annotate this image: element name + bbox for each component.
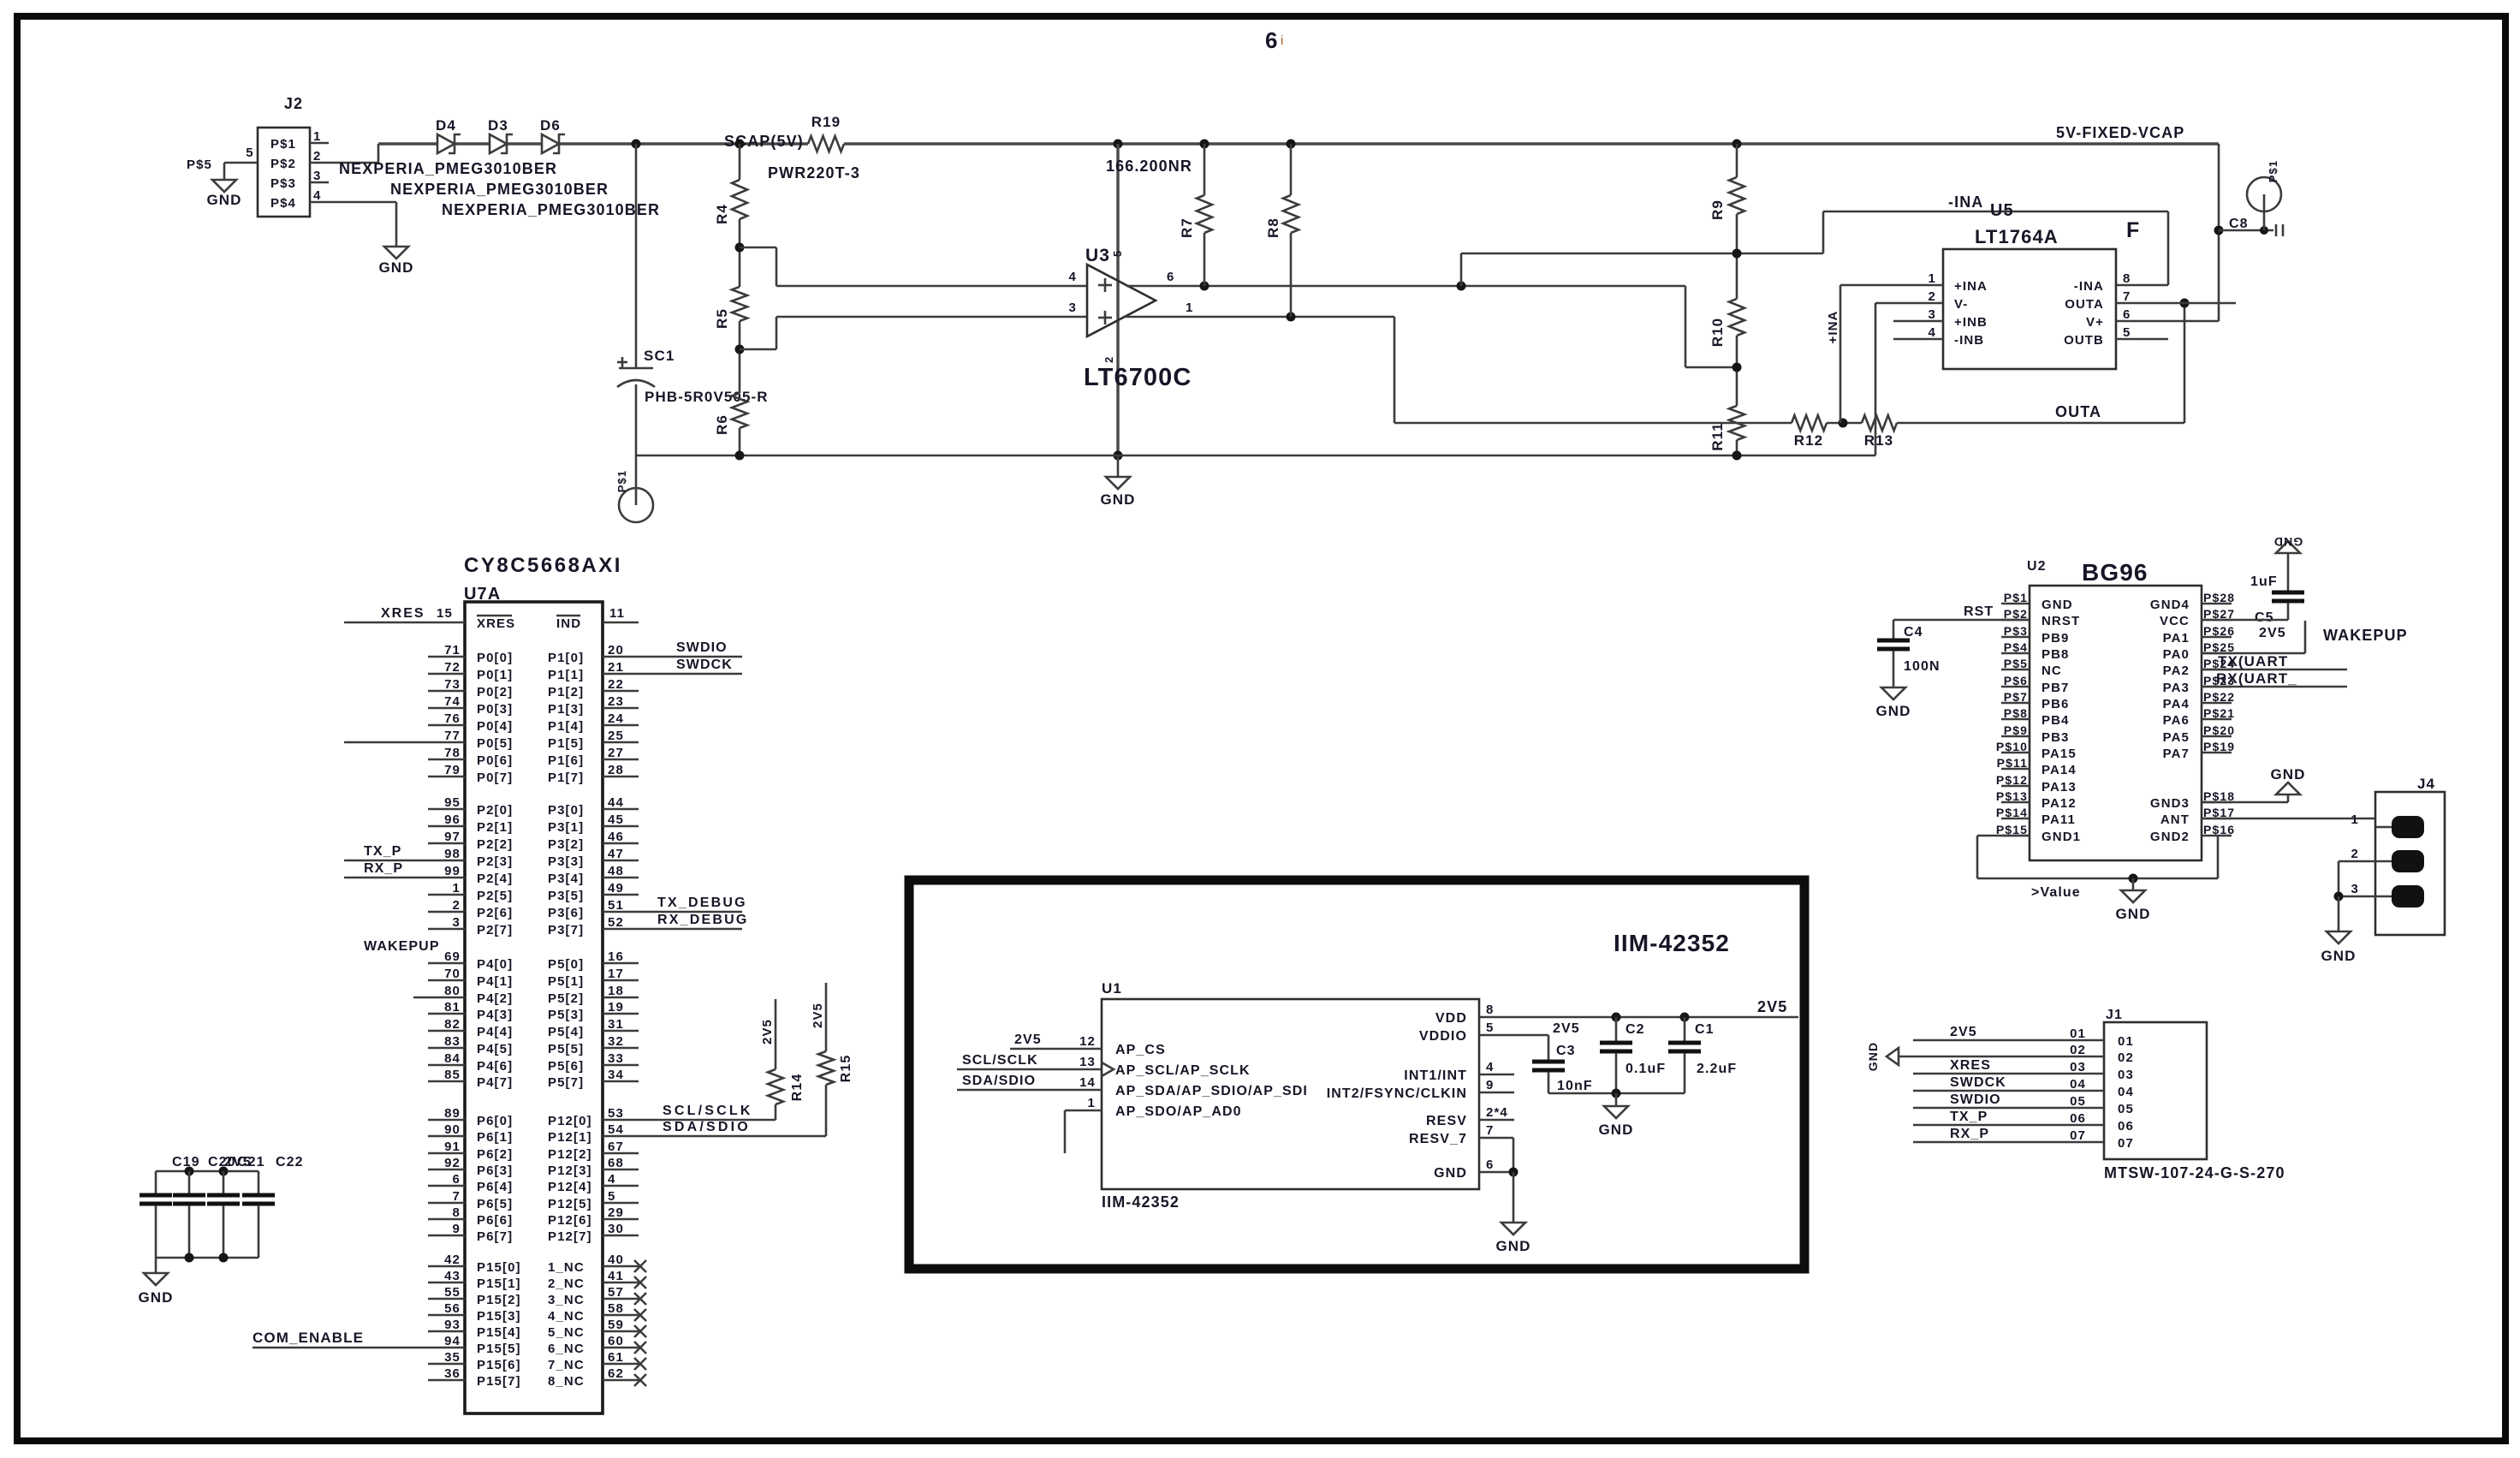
svg-text:8: 8	[1486, 1003, 1494, 1017]
svg-text:84: 84	[444, 1051, 461, 1066]
node SCAP(5V)	[724, 133, 804, 150]
diode D3	[488, 117, 513, 153]
svg-text:41: 41	[608, 1269, 624, 1283]
svg-text:8: 8	[453, 1205, 461, 1220]
svg-text:P0[0]: P0[0]	[477, 651, 513, 665]
svg-text:P5[2]: P5[2]	[548, 991, 584, 1006]
junction dots top rail	[632, 140, 1742, 149]
svg-text:05: 05	[2118, 1102, 2134, 1116]
svg-text:IIM-42352: IIM-42352	[1102, 1193, 1180, 1211]
svg-text:17: 17	[608, 967, 624, 981]
svg-text:J1: J1	[2106, 1008, 2123, 1022]
wire PA0 WAKEPUP	[2202, 621, 2305, 653]
resistor R12	[1792, 415, 1827, 449]
svg-text:2: 2	[1929, 289, 1936, 304]
svg-text:P$7: P$7	[2004, 690, 2028, 704]
ground (C4)	[1875, 687, 1911, 719]
svg-text:GND: GND	[1495, 1238, 1530, 1254]
svg-text:P3[4]: P3[4]	[548, 872, 584, 886]
svg-text:4: 4	[1486, 1060, 1494, 1074]
ground (U1)	[1495, 1172, 1530, 1254]
svg-text:R11: R11	[1709, 422, 1726, 451]
wire R4-R5	[739, 219, 741, 287]
svg-text:P3[3]: P3[3]	[548, 854, 584, 869]
svg-text:VCC: VCC	[2160, 614, 2190, 628]
wire VDDIO to C3	[1479, 1021, 1580, 1060]
svg-text:31: 31	[608, 1017, 624, 1032]
wire R12-R13	[1827, 419, 1862, 428]
accelerometer U1 IIM-42352	[1102, 980, 1479, 1211]
svg-text:D3: D3	[488, 117, 508, 134]
svg-text:P1[5]: P1[5]	[548, 736, 584, 751]
svg-text:23: 23	[608, 694, 624, 709]
label CY8C5668AXI	[464, 554, 622, 577]
svg-text:P$20: P$20	[2203, 723, 2235, 737]
svg-text:36: 36	[444, 1366, 461, 1381]
node WAKEPUP (U7A)	[364, 939, 440, 954]
svg-text:9: 9	[453, 1222, 461, 1236]
label 166.200NR	[1106, 158, 1192, 175]
svg-text:RX(UART_: RX(UART_	[2216, 670, 2297, 687]
svg-text:06: 06	[2118, 1119, 2134, 1134]
svg-text:PWR220T-3: PWR220T-3	[768, 164, 860, 182]
svg-text:GND: GND	[138, 1289, 173, 1306]
svg-text:0.1uF: 0.1uF	[1626, 1062, 1666, 1076]
svg-text:SDA/SDIO: SDA/SDIO	[663, 1120, 751, 1134]
svg-text:60: 60	[608, 1334, 624, 1348]
svg-text:P12[5]: P12[5]	[548, 1197, 592, 1211]
svg-text:9: 9	[1486, 1078, 1494, 1092]
svg-text:4: 4	[1069, 270, 1077, 284]
ground (C1-C3)	[1598, 1093, 1633, 1138]
U7A port P15/NC pins	[253, 1253, 646, 1389]
wire P$1 stem	[635, 455, 638, 505]
svg-text:R19: R19	[811, 114, 841, 130]
svg-text:02: 02	[2118, 1050, 2134, 1065]
svg-text:P0[6]: P0[6]	[477, 753, 513, 768]
svg-text:21: 21	[608, 660, 624, 675]
svg-text:78: 78	[444, 746, 461, 760]
svg-text:P0[7]: P0[7]	[477, 771, 513, 785]
ground (J2 pin4)	[378, 247, 413, 276]
svg-text:R8: R8	[1265, 217, 1281, 238]
svg-text:8: 8	[2123, 271, 2131, 286]
svg-text:61: 61	[608, 1350, 624, 1365]
svg-text:25: 25	[608, 729, 624, 743]
svg-text:AP_CS: AP_CS	[1115, 1043, 1166, 1057]
svg-text:7: 7	[453, 1189, 461, 1204]
svg-text:P6[7]: P6[7]	[477, 1229, 513, 1244]
svg-text:PB9: PB9	[2042, 631, 2069, 646]
svg-text:4_NC: 4_NC	[548, 1309, 585, 1324]
wire cap bank bottom	[156, 1253, 259, 1263]
svg-text:INT1/INT: INT1/INT	[1404, 1068, 1467, 1083]
svg-text:28: 28	[608, 763, 624, 777]
svg-text:62: 62	[608, 1366, 624, 1381]
svg-text:07: 07	[2118, 1136, 2134, 1151]
wire U5 pin7 OUTA	[2116, 302, 2236, 305]
svg-text:55: 55	[444, 1285, 461, 1300]
ground flag (J1 pin2)	[1866, 1042, 1899, 1071]
wire C8 node	[2219, 226, 2273, 235]
wire SDA/SDIO	[639, 1120, 826, 1136]
svg-text:30: 30	[608, 1222, 624, 1236]
svg-text:PA13: PA13	[2042, 780, 2077, 794]
op-amp U3	[1085, 246, 1156, 363]
svg-text:PHB-5R0V505-R: PHB-5R0V505-R	[645, 389, 769, 405]
svg-text:6: 6	[1167, 270, 1174, 284]
wire U3 pin1 output	[1123, 312, 1394, 322]
svg-text:P$2: P$2	[270, 157, 296, 171]
svg-text:12: 12	[1079, 1034, 1096, 1049]
svg-text:5: 5	[1486, 1021, 1494, 1035]
svg-text:P4[3]: P4[3]	[477, 1008, 513, 1022]
svg-text:PB8: PB8	[2042, 647, 2069, 662]
svg-text:GND: GND	[1875, 703, 1911, 719]
svg-text:P4[6]: P4[6]	[477, 1059, 513, 1074]
svg-text:P15[4]: P15[4]	[477, 1325, 521, 1340]
svg-text:SWDCK: SWDCK	[676, 658, 733, 672]
svg-text:46: 46	[608, 830, 624, 844]
wire J2 pin2 to diodes	[310, 144, 378, 163]
svg-text:P6[6]: P6[6]	[477, 1213, 513, 1228]
capacitor C4	[1877, 620, 1941, 687]
node 5V-FIXED-VCAP	[2056, 124, 2184, 141]
capacitor C3	[1532, 1044, 1593, 1093]
wire V- vertical	[1875, 303, 1877, 455]
svg-text:P2[2]: P2[2]	[477, 837, 513, 852]
svg-text:166.200NR: 166.200NR	[1106, 158, 1192, 175]
svg-text:+INA: +INA	[1826, 311, 1840, 344]
svg-text:U1: U1	[1102, 980, 1122, 997]
wire SDA/SDIO to U1 pin14	[957, 1074, 1102, 1090]
svg-text:GND: GND	[1434, 1166, 1467, 1181]
svg-text:P6[0]: P6[0]	[477, 1114, 513, 1128]
svg-text:NEXPERIA_PMEG3010BER: NEXPERIA_PMEG3010BER	[339, 160, 557, 177]
svg-text:P5[7]: P5[7]	[548, 1075, 584, 1090]
svg-text:GND2: GND2	[2150, 830, 2190, 844]
wire U3 pin3 input	[776, 316, 1087, 318]
svg-text:U2: U2	[2027, 559, 2047, 574]
svg-text:-INB: -INB	[1954, 333, 1984, 348]
svg-text:OUTA: OUTA	[2055, 403, 2101, 420]
svg-text:4: 4	[1929, 325, 1936, 340]
svg-text:95: 95	[444, 795, 461, 810]
svg-text:P0[1]: P0[1]	[477, 668, 513, 682]
wire TX_DEBUG	[639, 896, 747, 912]
svg-text:13: 13	[1079, 1055, 1096, 1069]
svg-text:-INA: -INA	[1948, 193, 1983, 211]
svg-text:R13: R13	[1864, 432, 1894, 449]
svg-text:P0[2]: P0[2]	[477, 685, 513, 699]
svg-text:SWDCK: SWDCK	[1950, 1075, 2006, 1090]
svg-text:P1[7]: P1[7]	[548, 771, 584, 785]
svg-text:RX_P: RX_P	[1950, 1127, 1989, 1141]
svg-text:P12[4]: P12[4]	[548, 1180, 592, 1194]
svg-text:P$12: P$12	[1996, 773, 2028, 787]
svg-text:35: 35	[444, 1350, 461, 1365]
IIM-42352 boundary box	[909, 880, 1804, 1269]
svg-text:IND: IND	[556, 616, 581, 631]
svg-text:80: 80	[444, 984, 461, 998]
wire R4 top	[739, 144, 741, 180]
wire TX(UART	[2202, 653, 2347, 669]
svg-text:P1[3]: P1[3]	[548, 702, 584, 717]
svg-text:PA12: PA12	[2042, 796, 2077, 811]
svg-text:P12[3]: P12[3]	[548, 1163, 592, 1178]
svg-text:34: 34	[608, 1068, 624, 1082]
node RX_P	[364, 861, 403, 876]
wire U1 pin4 stub	[1479, 1060, 1514, 1074]
svg-text:PB7: PB7	[2042, 681, 2069, 695]
svg-text:1: 1	[2351, 812, 2359, 827]
svg-text:1: 1	[1929, 271, 1936, 286]
svg-text:P1[2]: P1[2]	[548, 685, 584, 699]
svg-text:72: 72	[444, 660, 461, 675]
wire U1 pin1 stub	[1065, 1096, 1102, 1153]
svg-text:16: 16	[608, 949, 624, 964]
node TX_P	[364, 844, 401, 859]
wire U5 pin4 stub	[1893, 338, 1943, 341]
label IIM-42352 title	[1614, 930, 1730, 956]
svg-text:45: 45	[608, 812, 624, 827]
svg-text:7_NC: 7_NC	[548, 1358, 585, 1372]
capacitor C20	[207, 1171, 240, 1204]
label U2	[2027, 559, 2047, 574]
capacitor C2	[1600, 1017, 1666, 1093]
svg-text:P0[5]: P0[5]	[477, 736, 513, 751]
wire R10 bottom	[1732, 336, 1742, 406]
svg-text:P15[5]: P15[5]	[477, 1342, 521, 1356]
svg-text:P15[7]: P15[7]	[477, 1374, 521, 1389]
capacitor SC1	[617, 348, 769, 405]
svg-text:92: 92	[444, 1156, 461, 1170]
svg-text:76: 76	[444, 711, 461, 726]
svg-text:96: 96	[444, 812, 461, 827]
svg-text:3_NC: 3_NC	[548, 1293, 585, 1307]
svg-text:07: 07	[2070, 1128, 2086, 1143]
wire U3 pin6 output	[1126, 282, 1685, 291]
svg-text:R7: R7	[1179, 217, 1195, 238]
sheet number 6	[1265, 27, 1283, 53]
U7A label IND	[556, 616, 581, 631]
svg-text:PA11: PA11	[2042, 812, 2076, 827]
svg-text:GND: GND	[2270, 766, 2305, 783]
svg-text:32: 32	[608, 1034, 624, 1049]
svg-text:CY8C5668AXI: CY8C5668AXI	[464, 554, 622, 577]
svg-text:22: 22	[608, 677, 624, 692]
svg-text:53: 53	[608, 1106, 624, 1121]
svg-text:P2[6]: P2[6]	[477, 906, 513, 920]
svg-text:52: 52	[608, 915, 624, 930]
svg-text:GND: GND	[2273, 535, 2303, 549]
svg-text:10nF: 10nF	[1557, 1079, 1593, 1093]
capacitor C21	[242, 1171, 275, 1204]
svg-text:1uF: 1uF	[2250, 574, 2278, 589]
wire U1 pin6 GND	[1479, 1157, 1519, 1177]
svg-text:94: 94	[444, 1334, 461, 1348]
svg-text:V+: V+	[2086, 315, 2104, 330]
svg-text:01: 01	[2070, 1027, 2086, 1041]
node +INA	[1826, 311, 1840, 344]
svg-text:P6[4]: P6[4]	[477, 1180, 513, 1194]
resistor R9	[1709, 144, 1965, 220]
svg-text:5_NC: 5_NC	[548, 1325, 585, 1340]
svg-text:70: 70	[444, 967, 461, 981]
svg-text:1: 1	[453, 881, 461, 896]
svg-text:C5: C5	[2255, 610, 2274, 625]
svg-text:P$3: P$3	[2004, 624, 2028, 638]
svg-text:>Value: >Value	[2031, 885, 2081, 900]
svg-text:PA5: PA5	[2163, 730, 2190, 745]
resistor R8	[1265, 144, 1299, 317]
wire GND3	[2202, 794, 2288, 802]
svg-text:73: 73	[444, 677, 461, 692]
wire SCL/SCLK	[639, 1104, 776, 1120]
resistor R10	[1709, 299, 1744, 347]
ground (J4)	[2321, 896, 2356, 964]
svg-text:56: 56	[444, 1301, 461, 1316]
svg-text:68: 68	[608, 1156, 624, 1170]
svg-text:3: 3	[2351, 882, 2359, 896]
svg-text:RX_P: RX_P	[364, 861, 403, 876]
U7A label XRES	[477, 616, 515, 631]
svg-text:1_NC: 1_NC	[548, 1260, 585, 1275]
wire U5 pin3 stub	[1893, 320, 1943, 323]
svg-text:100N: 100N	[1904, 659, 1941, 674]
svg-text:D4: D4	[436, 117, 456, 134]
svg-text:83: 83	[444, 1034, 461, 1049]
svg-text:P0[3]: P0[3]	[477, 702, 513, 717]
svg-text:U5: U5	[1990, 201, 2014, 220]
svg-text:+INA: +INA	[1954, 279, 1988, 294]
svg-text:P$28: P$28	[2203, 591, 2235, 604]
svg-text:GND: GND	[2321, 948, 2356, 964]
resistor R7	[1179, 144, 1212, 286]
svg-text:P15[0]: P15[0]	[477, 1260, 521, 1275]
connector J4	[2351, 776, 2445, 935]
svg-text:R5: R5	[714, 308, 730, 329]
svg-text:P2[0]: P2[0]	[477, 803, 513, 818]
svg-text:8_NC: 8_NC	[548, 1374, 585, 1389]
svg-text:P$25: P$25	[2203, 640, 2235, 654]
svg-text:GND: GND	[1866, 1042, 1880, 1071]
svg-text:RX_DEBUG: RX_DEBUG	[657, 913, 749, 927]
svg-text:RST: RST	[1964, 604, 1994, 619]
wire VCAP down	[2214, 144, 2224, 321]
svg-text:3: 3	[1929, 307, 1936, 322]
svg-text:P$22: P$22	[2203, 690, 2235, 704]
svg-text:04: 04	[2118, 1085, 2134, 1099]
svg-text:C3: C3	[1556, 1044, 1576, 1058]
svg-text:P6[2]: P6[2]	[477, 1147, 513, 1162]
svg-text:P15[2]: P15[2]	[477, 1293, 521, 1307]
svg-text:D6: D6	[540, 117, 561, 134]
wire top rail	[378, 142, 2219, 145]
svg-text:P4[7]: P4[7]	[477, 1075, 513, 1090]
svg-text:P15[3]: P15[3]	[477, 1309, 521, 1324]
svg-text:i: i	[1281, 33, 1283, 48]
wire R11 bottom	[1736, 440, 1738, 455]
svg-text:AP_SCL/AP_SCLK: AP_SCL/AP_SCLK	[1115, 1063, 1251, 1078]
wire cap bank top	[156, 1167, 259, 1194]
svg-text:03: 03	[2070, 1060, 2086, 1074]
svg-text:+INB: +INB	[1954, 315, 1988, 330]
svg-text:P$2: P$2	[2004, 607, 2028, 621]
svg-text:57: 57	[608, 1285, 624, 1300]
svg-text:98: 98	[444, 847, 461, 861]
svg-text:TX_P: TX_P	[364, 844, 401, 859]
svg-text:RESV: RESV	[1426, 1114, 1467, 1128]
svg-text:2.2uF: 2.2uF	[1697, 1062, 1737, 1076]
node -INA	[1948, 193, 1983, 211]
svg-text:7: 7	[2123, 289, 2131, 304]
wire RST	[1893, 604, 2030, 620]
resistor R6	[714, 393, 747, 435]
svg-text:97: 97	[444, 830, 461, 844]
svg-text:C21: C21	[237, 1155, 265, 1169]
ground (GND3)	[2270, 766, 2305, 794]
svg-text:PA6: PA6	[2163, 713, 2190, 728]
connector J1	[2070, 1008, 2285, 1181]
svg-text:P4[2]: P4[2]	[477, 991, 513, 1006]
svg-text:P$1: P$1	[2004, 591, 2028, 604]
ground (U2)	[2115, 878, 2150, 922]
svg-text:J4: J4	[2417, 776, 2435, 792]
svg-text:2: 2	[2351, 847, 2359, 861]
wire U5 pin2	[1875, 302, 1943, 305]
svg-text:PA1: PA1	[2163, 631, 2190, 646]
svg-text:P$16: P$16	[2203, 823, 2235, 836]
svg-text:P1[1]: P1[1]	[548, 668, 584, 682]
svg-text:2V5: 2V5	[1757, 998, 1787, 1015]
svg-text:TX_P: TX_P	[1950, 1110, 1988, 1124]
svg-text:P2[5]: P2[5]	[477, 889, 513, 903]
svg-text:COM_ENABLE: COM_ENABLE	[253, 1330, 364, 1346]
wire VCC to C5	[2202, 619, 2288, 622]
svg-text:2_NC: 2_NC	[548, 1276, 585, 1291]
resistor R13	[1862, 415, 1897, 449]
svg-text:P$27: P$27	[2203, 607, 2235, 621]
svg-text:V-: V-	[1954, 297, 1968, 312]
svg-text:P4[4]: P4[4]	[477, 1025, 513, 1039]
svg-text:U3: U3	[1085, 246, 1110, 265]
svg-text:OUTA: OUTA	[2065, 297, 2104, 312]
svg-text:2V5: 2V5	[811, 1003, 825, 1028]
wire U1 pin9 stub	[1479, 1078, 1514, 1092]
svg-text:XRES: XRES	[477, 616, 515, 631]
svg-text:RESV_7: RESV_7	[1409, 1132, 1467, 1146]
wire J4 pin3	[2334, 892, 2376, 902]
svg-text:R14: R14	[790, 1074, 805, 1102]
svg-text:LT6700C: LT6700C	[1084, 364, 1192, 391]
svg-text:P12[1]: P12[1]	[548, 1130, 592, 1145]
capacitor C1	[1668, 1017, 1737, 1093]
svg-text:06: 06	[2070, 1111, 2086, 1126]
svg-text:82: 82	[444, 1017, 461, 1032]
wire ANT to J4	[2202, 818, 2375, 820]
svg-text:P$26: P$26	[2203, 624, 2235, 638]
svg-text:P1[4]: P1[4]	[548, 719, 584, 734]
wire J2 pin5	[187, 146, 258, 172]
wire 2V5 to U1 pin12	[1010, 1033, 1102, 1049]
labels C19 C20 2V5 C21 C22	[172, 1155, 304, 1169]
wire U3 pin4 input	[776, 285, 1087, 288]
U7A pin XRES(15)	[344, 606, 465, 622]
svg-text:85: 85	[444, 1068, 461, 1082]
wire pin6 step down	[1685, 286, 1737, 367]
svg-text:R9: R9	[1709, 199, 1726, 220]
